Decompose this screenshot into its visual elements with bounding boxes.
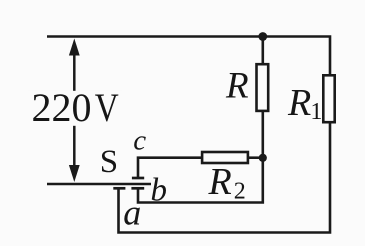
svg-text:220: 220 — [32, 85, 92, 130]
svg-text:R: R — [225, 66, 249, 107]
svg-text:2: 2 — [234, 178, 246, 204]
svg-text:b: b — [151, 173, 168, 209]
svg-text:V: V — [95, 85, 119, 130]
svg-text:R: R — [208, 161, 232, 203]
svg-text:S: S — [100, 144, 118, 180]
svg-text:c: c — [133, 124, 146, 156]
svg-text:1: 1 — [310, 99, 322, 125]
svg-text:R: R — [287, 82, 311, 124]
svg-text:a: a — [123, 192, 141, 232]
